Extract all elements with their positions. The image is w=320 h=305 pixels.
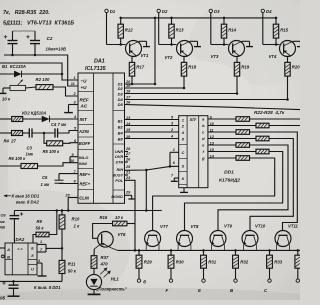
svg-text:A: A	[6, 247, 10, 252]
svg-text:−U: −U	[81, 78, 88, 83]
svg-text:С6: С6	[1, 213, 7, 218]
svg-text:R17: R17	[136, 65, 144, 70]
svg-text:RIН: RIН	[116, 167, 123, 172]
svg-text:R33: R33	[274, 260, 282, 265]
svg-text:0В: 0В	[0, 226, 5, 230]
arrow to DD1 pin16	[5, 195, 12, 197]
svg-text:VT8: VT8	[191, 224, 199, 229]
svg-text:AZIN: AZIN	[78, 129, 90, 134]
svg-text:INLО: INLО	[79, 155, 89, 160]
wire -U feed	[0, 63, 78, 80]
svg-text:„Полярность”: „Полярность”	[96, 287, 128, 292]
svg-text:B2: B2	[118, 125, 124, 130]
wire D2 to base node	[158, 13, 160, 45]
ground at VT3 collector	[242, 40, 250, 42]
resistor R17	[132, 55, 137, 57]
capacitor C3 1мк	[23, 132, 30, 134]
wire segment row 7	[153, 158, 275, 231]
svg-text:BOFF: BOFF	[79, 141, 91, 146]
resistor R22	[208, 118, 236, 120]
ground at DGND	[125, 194, 132, 196]
svg-text:D3: D3	[214, 9, 220, 14]
wire CLIN pin 22 down to rail	[68, 197, 78, 199]
capacitor C6 electrolytic	[13, 211, 15, 216]
ground DA2 pin 4	[37, 262, 42, 264]
wire POL down to bus	[125, 180, 136, 250]
resistor R5 100к to BOFF	[44, 133, 47, 143]
wire DA2 input B with terminal	[1, 255, 4, 258]
transistor VT10	[242, 231, 258, 247]
resistor R4 27	[0, 132, 12, 134]
svg-text:R2 100: R2 100	[36, 77, 50, 82]
svg-text:R14: R14	[228, 28, 236, 33]
wire analog common rail	[14, 210, 161, 212]
svg-text:VT2: VT2	[165, 55, 173, 60]
capacitor C2	[34, 31, 36, 40]
terminal D2	[157, 9, 160, 12]
svg-text:25: 25	[125, 165, 131, 169]
terminal segment F	[169, 279, 172, 282]
svg-text:D2: D2	[118, 86, 124, 91]
wire digit line D5	[125, 105, 301, 110]
svg-text:D3: D3	[118, 91, 124, 96]
decoder DD1 body	[179, 116, 208, 188]
terminal D3	[209, 9, 212, 12]
ground at R1	[2, 88, 4, 93]
svg-text:27: 27	[125, 152, 131, 156]
svg-text:50 к: 50 к	[68, 269, 77, 274]
wire digit line D4	[125, 99, 288, 101]
svg-text:REF+: REF+	[80, 172, 91, 177]
svg-text:D5: D5	[118, 102, 124, 107]
svg-text:= =: = =	[17, 247, 23, 251]
resistor R3	[0, 118, 12, 120]
resistor R13	[171, 18, 173, 24]
resistor R30	[170, 249, 173, 252]
svg-text:470: 470	[100, 261, 109, 266]
wire OVR stub	[125, 156, 129, 158]
wire VT6 emitter to bus	[111, 248, 117, 251]
svg-text:R31: R31	[208, 260, 216, 265]
svg-text:10 к: 10 к	[2, 97, 11, 102]
terminal segment	[137, 279, 140, 282]
svg-text:DA1: DA1	[94, 59, 105, 65]
svg-text:21: 21	[125, 171, 130, 175]
svg-text:BUSY: BUSY	[112, 173, 123, 178]
resistor R33	[268, 249, 271, 252]
svg-text:R12: R12	[125, 28, 133, 33]
wire R10 to R11	[61, 229, 63, 260]
svg-text:56 к: 56 к	[36, 226, 45, 231]
svg-text:К выв 16 DD1: К выв 16 DD1	[12, 193, 40, 198]
svg-text:1: 1	[74, 76, 76, 80]
svg-text:ICL7135: ICL7135	[85, 66, 107, 72]
svg-text:U: U	[31, 268, 34, 272]
wire BCD line B8	[125, 138, 179, 140]
svg-text:R6 100 к: R6 100 к	[9, 156, 27, 161]
wire RIN branch down to rail	[145, 170, 147, 211]
svg-text:+U: +U	[81, 85, 88, 90]
svg-text:В1 КС133А: В1 КС133А	[2, 64, 26, 69]
resistor R31	[202, 249, 205, 252]
svg-text:B8: B8	[118, 137, 124, 142]
wire digit line D2	[125, 87, 185, 89]
svg-text:REF: REF	[80, 97, 89, 102]
wire BCD line B1	[125, 119, 179, 121]
svg-text:К176ИД2: К176ИД2	[219, 178, 240, 184]
led HL1	[93, 268, 95, 274]
svg-text:R20: R20	[292, 65, 300, 70]
svg-text:CLIN: CLIN	[79, 196, 90, 201]
resistor R34	[297, 249, 300, 252]
svg-text:INT: INT	[80, 117, 89, 122]
svg-text:C3: C3	[27, 146, 33, 151]
ground at C7	[8, 295, 20, 297]
capacitor C7 electrolytic	[13, 281, 15, 285]
ground DD1 pin 8	[183, 188, 185, 193]
resistor R28	[208, 157, 236, 159]
svg-text:OVR: OVR	[115, 154, 124, 159]
resistor R25	[208, 138, 256, 140]
svg-text:выв. 8 DA2: выв. 8 DA2	[16, 200, 40, 205]
svg-text:R30: R30	[176, 260, 184, 265]
wire D3 to base node	[210, 13, 212, 45]
terminal segment В	[234, 279, 237, 282]
svg-text:Е: Е	[198, 288, 201, 293]
svg-text:REF+: REF+	[80, 182, 91, 187]
potentiometer R1 10к	[3, 87, 10, 89]
svg-text:R16: R16	[100, 215, 108, 220]
svg-text:1мк: 1мк	[26, 152, 34, 157]
resistor R32	[234, 249, 237, 252]
svg-text:DGND: DGND	[111, 194, 123, 199]
capacitor C5 1мк	[59, 173, 78, 175]
svg-text:26: 26	[125, 158, 131, 162]
svg-text:VT10: VT10	[255, 224, 266, 229]
wire DA2 outputs pins 1 and 7	[37, 243, 46, 245]
resistor R6 100к input	[0, 165, 21, 167]
ground at HL1	[93, 290, 95, 295]
svg-text:C5: C5	[42, 175, 48, 180]
svg-text:g: g	[201, 156, 205, 161]
svg-text:R10: R10	[72, 217, 80, 222]
svg-text:10мк×10В: 10мк×10В	[46, 46, 67, 51]
wire D1 to base node	[106, 13, 108, 45]
svg-text:C2: C2	[47, 36, 53, 41]
svg-text:D1: D1	[110, 9, 116, 14]
svg-text:DD1: DD1	[224, 170, 234, 176]
terminal D4	[261, 9, 264, 12]
svg-text:7к, R28-R35 220.: 7к, R28-R35 220.	[3, 10, 50, 16]
svg-text:R22-R28 4,7к: R22-R28 4,7к	[254, 110, 285, 115]
svg-text:B1: B1	[118, 119, 124, 124]
svg-text:1: 1	[173, 148, 175, 152]
transistor VT6	[98, 232, 114, 248]
wire DD1 C tied to S	[170, 151, 179, 153]
resistor R12	[120, 18, 122, 24]
svg-text:VT7: VT7	[160, 224, 168, 229]
wire INLO stub	[70, 156, 78, 158]
wire +5V top rail	[121, 17, 276, 19]
transistor VT2	[177, 41, 193, 57]
svg-text:VT6: VT6	[118, 232, 126, 237]
ground at AC pin 3	[69, 104, 79, 106]
svg-text:R32: R32	[240, 260, 248, 265]
svg-text:5Д1111; VT6-VT13 КТ361Б: 5Д1111; VT6-VT13 КТ361Б	[3, 21, 74, 27]
wire digit line D1	[125, 83, 156, 85]
svg-text:29: 29	[125, 191, 131, 195]
svg-text:R29: R29	[144, 260, 152, 265]
svg-text:HL1: HL1	[111, 277, 120, 282]
svg-text:VT1: VT1	[141, 53, 149, 58]
svg-text:К выв. 8 DD1: К выв. 8 DD1	[34, 285, 61, 290]
svg-text:R4 27: R4 27	[4, 139, 17, 144]
resistor R20	[288, 55, 291, 57]
wire rail tap to D1 line	[154, 18, 156, 84]
wire segment row 5	[218, 145, 288, 231]
wire +U from C2 to pin 11	[4, 55, 78, 86]
wire RIN to DD1 S	[125, 166, 179, 170]
svg-text:B: B	[7, 254, 10, 259]
resistor R14	[223, 18, 225, 24]
resistor R19	[237, 55, 240, 57]
svg-text:Х/У: Х/У	[189, 117, 198, 122]
ground DD1 K pin 7	[174, 177, 178, 179]
svg-text:STR: STR	[115, 160, 123, 165]
resistor R27	[208, 151, 256, 153]
svg-text:С4 7 мк: С4 7 мк	[51, 122, 67, 127]
svg-text:б: б	[143, 279, 146, 284]
terminal segment Е	[202, 279, 205, 282]
wire R16 to VT6 base	[93, 224, 113, 239]
svg-text:R5 100 к: R5 100 к	[43, 149, 61, 154]
svg-text:INNI: INNI	[79, 161, 88, 166]
resistor R24	[208, 131, 236, 133]
diode VD2 КД510А	[23, 118, 42, 120]
svg-text:1 к: 1 к	[74, 224, 81, 229]
resistor R37 470	[93, 249, 95, 256]
svg-text:10 к: 10 к	[115, 215, 124, 220]
resistor R2 100	[26, 87, 37, 88]
svg-text:R9: R9	[37, 219, 43, 224]
wire segment row 4	[250, 139, 293, 231]
ground at VT1 collector	[139, 40, 147, 42]
transistor VT9	[210, 231, 226, 247]
svg-text:22: 22	[65, 194, 71, 198]
resistor R15	[275, 18, 277, 24]
resistor R18	[184, 55, 188, 57]
wire D4 to base node	[262, 13, 264, 45]
svg-text:05: 05	[0, 296, 6, 301]
wire DA2 input A	[0, 247, 5, 249]
resistor R11 50к	[59, 260, 65, 273]
svg-text:R11: R11	[68, 262, 76, 267]
wire BCD line B2	[125, 125, 179, 127]
node C3-C4 junction	[43, 132, 46, 135]
svg-text:В: В	[230, 288, 233, 293]
svg-text:VT3: VT3	[211, 54, 219, 59]
op-amp U DA1 body	[78, 73, 125, 203]
resistor R10 1к	[59, 215, 65, 229]
svg-text:Е: Е	[31, 246, 34, 250]
wire R2 to REF pin 2	[53, 87, 78, 96]
terminal segment	[296, 279, 299, 282]
svg-text:R13: R13	[176, 28, 184, 33]
transistor VT1	[126, 41, 142, 57]
svg-text:11: 11	[71, 82, 75, 86]
svg-text:R15: R15	[280, 28, 288, 33]
svg-text:R18: R18	[188, 65, 196, 70]
resistor R23	[208, 125, 256, 127]
svg-text:D4: D4	[266, 9, 272, 14]
terminal D1	[105, 9, 108, 12]
wire segment row 3	[250, 132, 298, 231]
wire negative bus	[0, 280, 62, 282]
svg-text:23: 23	[125, 176, 131, 180]
wire BCD line B4	[125, 131, 179, 133]
led HL1 arrows	[100, 269, 106, 275]
wire segment row 6	[185, 152, 283, 231]
zener diode VD1 КС133А	[0, 73, 62, 75]
capacitor C1	[12, 31, 14, 40]
resistor R26	[208, 144, 236, 146]
wire emitter supply bus	[118, 249, 301, 251]
terminal segment С	[268, 279, 271, 282]
svg-text:VD2 КД510А: VD2 КД510А	[22, 111, 47, 116]
transistor VT3	[229, 41, 245, 57]
wire digit line D3	[125, 93, 238, 95]
svg-text:D2: D2	[162, 9, 168, 14]
ground at VT4 collector	[293, 40, 301, 42]
svg-text:VT9: VT9	[224, 224, 232, 229]
svg-text:S: S	[182, 164, 185, 169]
wire supply stub rail	[13, 30, 36, 32]
svg-text:AC: AC	[80, 104, 88, 109]
wire BUSY stub	[125, 174, 129, 176]
svg-text:VT4: VT4	[269, 54, 277, 59]
wire segment row 2	[269, 125, 300, 127]
resistor R29	[138, 249, 141, 252]
transistor VT8	[177, 231, 193, 247]
wire STR stub	[125, 161, 129, 163]
svg-text:R37: R37	[101, 255, 109, 260]
transistor VT4	[280, 41, 296, 57]
svg-text:R19: R19	[241, 65, 249, 70]
ground at VT2 collector	[190, 40, 198, 42]
svg-text:B4: B4	[118, 131, 124, 136]
svg-text:DA2: DA2	[16, 237, 25, 242]
transistor VT7	[145, 231, 161, 247]
transistor VT11	[275, 231, 291, 247]
svg-text:C: C	[181, 150, 184, 155]
svg-text:1: 1	[40, 240, 42, 244]
wire segment row 1	[250, 118, 301, 120]
wire UNR stub	[125, 151, 129, 153]
svg-text:POL: POL	[115, 178, 124, 183]
svg-text:28: 28	[125, 147, 131, 151]
svg-text:1 мк: 1 мк	[41, 182, 51, 187]
svg-text:F: F	[166, 288, 169, 293]
svg-text:VT11: VT11	[288, 224, 299, 229]
capacitor C4 7мк	[54, 128, 56, 137]
